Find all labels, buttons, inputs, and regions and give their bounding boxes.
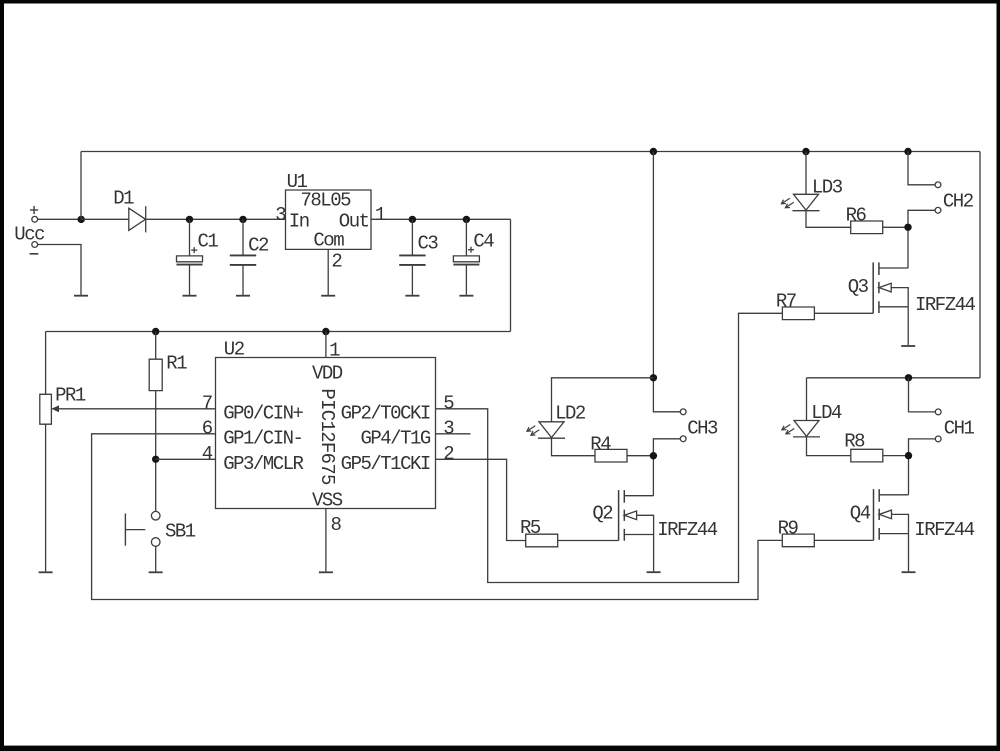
svg-text:6: 6 [202,418,213,440]
node LD2 branch junction [650,374,657,381]
svg-text:CH3: CH3 [687,418,718,440]
resistor R1 [149,332,187,391]
wire CH1 top lead [909,378,936,412]
svg-text:GP0/CIN+: GP0/CIN+ [223,403,303,425]
svg-text:R8: R8 [844,431,865,453]
svg-text:C4: C4 [473,230,494,252]
svg-text:CH1: CH1 [944,418,975,440]
node input junction [78,216,85,223]
pin 5 label U2 [443,393,454,415]
node CH1 rail tap [905,374,912,381]
wire pin3 stub [436,433,471,435]
svg-text:1: 1 [329,340,340,362]
ground Q4 [902,570,916,573]
svg-text:R7: R7 [776,290,796,312]
svg-text:R4: R4 [590,433,611,455]
wire R1 to SB1 [155,391,157,512]
wire CH1 bottom lead [909,439,936,495]
svg-text:SB1: SB1 [165,520,196,542]
svg-text:78L05: 78L05 [301,189,352,211]
svg-text:2: 2 [331,251,342,273]
svg-text:C2: C2 [248,234,269,256]
wire input to D1 [81,218,129,220]
wire Ucc plus to node [38,218,81,220]
svg-text:U2: U2 [224,339,245,361]
svg-text:D1: D1 [113,188,134,210]
pin 6 label U2 [202,418,213,440]
wire LD4 anode [806,378,808,421]
resistor R6 [846,205,883,234]
wire R9 to Q4 gate [814,539,873,541]
pin 2 label U2 [443,443,454,465]
svg-text:3: 3 [275,204,286,226]
wire SB1 to ground [155,546,157,571]
svg-text:1: 1 [375,204,386,226]
svg-text:4: 4 [202,443,213,465]
node LD2 bus tap [650,148,657,155]
node C1 tap [186,216,193,223]
connector CH2 [935,182,974,213]
led LD2 [527,403,586,439]
ground U2 [319,570,333,573]
wire pin4 [156,458,216,460]
ground Ucc [74,294,88,297]
svg-text:VSS: VSS [312,490,343,512]
wire Q2 source to ground [653,535,655,572]
resistor R8 [844,431,883,462]
svg-text:8: 8 [331,514,342,536]
svg-text:PIC12F675: PIC12F675 [316,388,338,485]
pin 3 label U1 [275,204,286,226]
led LD3 [781,177,842,211]
node C2 tap [239,216,246,223]
terminal Ucc minus [30,242,39,254]
wire pin5 net [436,313,783,582]
capacitor C4 [453,219,494,295]
pin 7 label U2 [202,393,212,415]
wire D1 to U1 In [146,218,286,220]
ground Q3 [901,344,915,347]
svg-text:Ucc: Ucc [14,223,45,245]
svg-text:IRFZ44: IRFZ44 [915,294,976,316]
resistor R7 [776,290,815,319]
wire PR1 wiper to pin7 [60,408,216,410]
svg-text:VDD: VDD [312,362,343,384]
wire CH3 vertical [653,152,680,412]
potentiometer PR1 [40,385,86,424]
svg-text:R6: R6 [846,205,867,227]
wire second rail [807,377,981,379]
wire U1 Out [371,218,511,220]
wire R7 to Q3 gate [814,312,873,314]
svg-text:GP3/MCLR: GP3/MCLR [223,453,303,475]
wire LD2 branch [552,378,654,422]
svg-text:Q3: Q3 [848,276,869,298]
svg-text:Q4: Q4 [850,503,871,525]
svg-text:IRFZ44: IRFZ44 [657,519,718,541]
resistor R4 [590,433,627,462]
pin 8 label U2 [331,514,342,536]
svg-text:CH2: CH2 [943,191,974,213]
svg-text:IRFZ44: IRFZ44 [914,519,975,541]
ground U1 [321,294,335,297]
node Q2 drain junction [650,452,657,459]
node Q3 drain junction [904,224,911,231]
wire riser to top bus [80,152,82,220]
svg-text:R5: R5 [520,517,541,539]
wire VDD pin1 [325,332,327,358]
connector CH1 [935,409,974,442]
svg-text:LD4: LD4 [811,402,842,424]
svg-text:GP2/T0CKI: GP2/T0CKI [341,403,430,425]
ground C3 [405,294,419,297]
wire Q3 source to ground [907,307,909,345]
svg-text:Q2: Q2 [592,503,613,525]
node VDD tap [322,328,329,335]
resistor R5 [520,517,558,547]
label Ucc [14,223,45,245]
svg-text:In: In [289,210,309,232]
node Q4 drain junction [905,452,912,459]
svg-text:PR1: PR1 [55,385,86,407]
svg-text:5: 5 [443,393,454,415]
ic U2 box [216,339,436,512]
svg-text:GP1/CIN-: GP1/CIN- [223,427,302,449]
capacitor C1 [177,219,219,295]
pin 3 label U2 [443,418,454,440]
wire CH2 bottom lead [908,210,935,268]
svg-text:GP5/T1CKI: GP5/T1CKI [341,453,430,475]
ground Q2 [647,570,661,573]
transistor Q2 [592,490,717,541]
svg-text:R1: R1 [166,352,187,374]
wire LD2 to R4 [552,438,596,456]
svg-text:Com: Com [313,230,344,252]
wire Q4 source to ground [908,534,910,572]
connector CH3 [680,409,718,442]
ground C1 [183,294,197,297]
pushbutton SB1 [125,511,195,546]
node R1 tap [152,328,159,335]
wire Ucc minus to ground [38,245,81,295]
pin 1 label U1 [375,204,386,226]
svg-text:C3: C3 [418,232,439,254]
wire R5 to Q2 gate [558,540,619,542]
node CH2 bus tap [904,148,911,155]
wire 5V drop [510,219,512,331]
svg-text:Out: Out [339,210,369,232]
ground SB1 [149,570,163,573]
wire CH2 top lead [908,152,935,185]
svg-text:2: 2 [443,443,454,465]
pin 4 label U2 [202,443,213,465]
wire U1 Com to ground [327,249,329,295]
wire pin2 net [436,459,526,540]
wire 5V rail [46,331,511,333]
wire R6 to node [883,226,908,228]
svg-text:R9: R9 [778,517,799,539]
svg-text:LD2: LD2 [555,403,586,425]
ground C4 [459,294,473,297]
wire LD4 to R8 [807,437,852,456]
ground PR1 [39,570,53,573]
svg-text:GP4/T1G: GP4/T1G [360,427,430,449]
node pin4 junction [152,456,159,463]
transistor Q4 [850,489,975,541]
wire LD3 anode [805,152,807,195]
capacitor C3 [399,219,438,295]
svg-text:LD3: LD3 [812,177,843,199]
wire VSS to ground [325,509,327,572]
pin 1 label U2 [329,340,340,362]
wire top bus [81,151,980,153]
wire rail to PR1 [45,332,47,395]
svg-text:C1: C1 [198,230,219,252]
wire PR1 to ground [45,424,47,571]
regulator U1 box [286,171,372,252]
pin 2 label U1 [331,251,342,273]
transistor Q3 [848,262,976,316]
svg-text:7: 7 [202,393,212,415]
wire pin6 net [92,434,783,600]
wire R4 to node [627,455,653,457]
wire LD3 to R6 [806,211,851,228]
capacitor C2 [230,219,269,295]
svg-text:3: 3 [443,418,454,440]
led LD4 [782,402,842,437]
wire R8 to node [883,455,909,457]
terminal Ucc plus [30,206,38,222]
node C4 tap [463,216,470,223]
resistor R9 [778,517,815,546]
node LD3 bus tap [802,148,809,155]
wire CH3 bottom lead [653,439,680,496]
wire right bus drop [979,152,981,378]
ground C2 [236,294,250,297]
diode D1 [113,188,146,233]
node C3 tap [409,216,416,223]
